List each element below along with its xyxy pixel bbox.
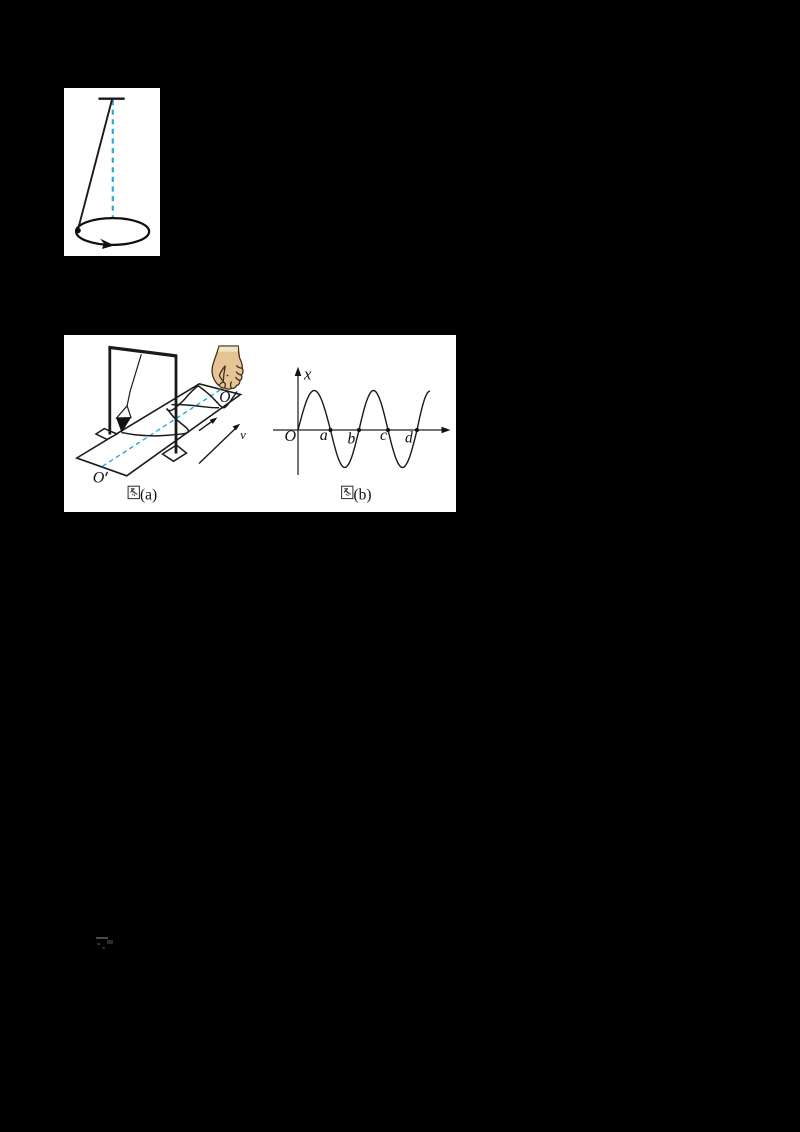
board (paper tape): [77, 384, 241, 476]
string: [78, 100, 112, 231]
ceiling mount bar: [99, 97, 125, 99]
svg-text:x: x: [303, 365, 312, 384]
pendulum string: [127, 354, 141, 406]
svg-text:(a): (a): [140, 486, 157, 503]
graph vertical axis: [297, 372, 299, 475]
svg-text:(b): (b): [354, 486, 372, 503]
bob: [75, 228, 81, 234]
sand trace loop underside: [172, 404, 220, 407]
center dashed line O'-O: [103, 388, 223, 466]
label 图(b): [342, 486, 353, 498]
label 图(a): [128, 486, 139, 498]
rotation arrowhead: [100, 239, 115, 249]
graph horizontal axis: [273, 429, 446, 431]
svg-text:c: c: [380, 427, 387, 444]
point c: [386, 428, 390, 432]
point b: [357, 428, 361, 432]
circular path: [76, 218, 149, 245]
svg-text:O: O: [285, 428, 297, 445]
point a: [328, 428, 332, 432]
faint artifact mark: [96, 937, 108, 939]
sand trace wave: [122, 386, 238, 436]
svg-text:a: a: [320, 427, 328, 444]
svg-text:d: d: [405, 430, 413, 447]
svg-text:v: v: [240, 428, 246, 442]
left foot of stand: [96, 429, 117, 440]
vertical axis dashed line: [112, 100, 114, 218]
short arrow: [199, 420, 215, 431]
right leg: [175, 355, 178, 454]
svg-text:b: b: [348, 431, 356, 448]
right foot of stand: [163, 445, 187, 461]
hand: [212, 346, 243, 389]
panel: conical pendulum figure: [64, 88, 160, 256]
left leg: [108, 348, 111, 435]
panel: sand-pendulum experiment figure: [64, 335, 456, 512]
long arrow v: [199, 427, 238, 464]
point d: [415, 428, 419, 432]
svg-text:O: O: [93, 470, 105, 487]
displacement curve: [298, 391, 430, 468]
funnel cone: [117, 406, 131, 418]
svg-text:O: O: [219, 389, 230, 406]
funnel black tip: [116, 417, 131, 432]
top bar: [108, 347, 177, 356]
